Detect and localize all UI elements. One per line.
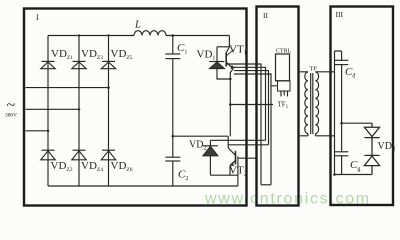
node phase C <box>107 86 110 89</box>
svg-text:II: II <box>263 11 268 20</box>
diode VD1 <box>209 47 230 79</box>
transformer TF primary winding <box>305 72 308 134</box>
diode VDd upper <box>364 123 379 137</box>
diode VDZ1 <box>41 61 55 68</box>
transformer TF secondary winding <box>315 72 318 134</box>
wire rectifier leg 2 <box>78 36 80 187</box>
wire VT1 drive 2 <box>234 67 266 140</box>
wire Cd top link <box>335 51 342 60</box>
wire bottom node III <box>335 174 373 176</box>
node mid bus <box>172 135 175 138</box>
wire rectifier leg 3 <box>108 36 110 187</box>
inductor L <box>134 31 166 36</box>
CTRL connector <box>278 81 291 91</box>
transistor VT1 <box>217 36 235 137</box>
diode VDd lower <box>364 138 379 175</box>
wire VT2 gate return lower <box>228 144 269 146</box>
node phase B <box>78 108 81 111</box>
wire phase input C <box>26 87 109 89</box>
wire drive return U <box>261 184 271 186</box>
node Cd bottom <box>340 122 343 125</box>
svg-text:L: L <box>134 20 141 31</box>
section box III <box>331 7 394 206</box>
capacitor C2 <box>165 136 180 186</box>
label ~380V <box>5 97 17 119</box>
svg-text:380V: 380V <box>5 113 17 119</box>
wire secondary bottom lead <box>315 134 334 136</box>
wire bottom DC bus <box>48 185 238 187</box>
diode VDZ2 <box>41 150 55 160</box>
CTRL pins <box>281 91 288 97</box>
wire mid bus <box>173 135 228 137</box>
diode VDZ5 <box>101 61 115 68</box>
transformer TF primary leads <box>298 72 308 136</box>
capacitor Cg <box>335 123 349 174</box>
node leg2 top <box>78 34 80 36</box>
node leg3 top <box>107 34 109 36</box>
node Cg bottom <box>333 173 336 176</box>
wire VT2 gate return upper <box>210 139 265 141</box>
node phase A <box>47 130 50 133</box>
diode VDZ3 <box>72 61 86 68</box>
wire VT1 drive 4 <box>234 74 277 185</box>
wire phase input A <box>26 130 49 132</box>
transistor VT2 <box>228 136 256 186</box>
capacitor C1 <box>165 36 180 137</box>
diode VD2 <box>203 140 218 175</box>
wire top DC bus <box>48 35 229 37</box>
wire VD2 anode return <box>210 174 238 176</box>
node C1 top <box>172 34 175 37</box>
wire VT1 drive 1 <box>227 64 261 185</box>
CTRL block <box>276 54 290 81</box>
section box II <box>257 7 299 206</box>
svg-text:TF: TF <box>310 66 318 73</box>
wire phase input B <box>26 108 80 110</box>
node dots <box>47 34 343 176</box>
svg-text:~: ~ <box>7 97 16 114</box>
wire rectifier leg 1 <box>47 36 49 187</box>
diode VDZ6 <box>101 150 115 160</box>
wire VT1 drive 3 <box>234 71 269 145</box>
wire VT1 emitter reference <box>230 104 273 106</box>
node VT1 emitter <box>229 78 232 81</box>
node VT1 ref <box>229 103 232 106</box>
svg-text:III: III <box>336 10 344 19</box>
wire secondary top lead <box>315 71 334 73</box>
section box I <box>24 9 247 206</box>
diode VDZ4 <box>72 150 86 160</box>
svg-text:CTRL: CTRL <box>276 49 292 55</box>
wire box III left node <box>334 51 336 175</box>
transformer TF core <box>311 73 313 134</box>
svg-text:I: I <box>36 13 39 22</box>
wire Cd to diodes <box>342 122 372 124</box>
capacitor Cd <box>335 60 349 123</box>
